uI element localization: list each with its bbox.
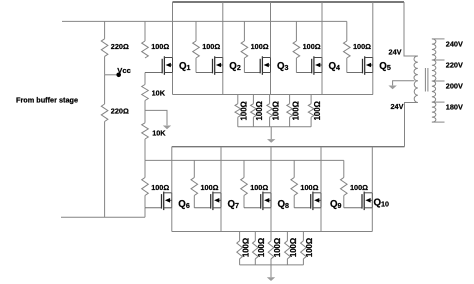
svg-text:220Ω: 220Ω (111, 107, 129, 116)
label 220V tap (446, 61, 463, 70)
label 100Ω source bank bottom #2 (257, 238, 266, 257)
wire top ground stem (270, 127, 272, 139)
svg-text:100Ω: 100Ω (255, 101, 264, 120)
resistor 100Ω source bank top #4 (287, 95, 293, 127)
wire gate bus drop Q10 (343, 160, 345, 177)
node Vcc stub wire (105, 74, 117, 76)
label 100Ω gate Q3 (251, 42, 269, 51)
transistor Q6 (145, 192, 172, 211)
svg-text:100Ω: 100Ω (350, 183, 368, 192)
svg-text:100Ω: 100Ω (291, 101, 300, 120)
label 100Ω gate Q2 (202, 42, 220, 51)
transistor Q9 (294, 192, 321, 211)
wire source Q8 (270, 208, 272, 232)
wire primary center tap (393, 81, 415, 86)
resistor 100Ω gate Q1 (142, 21, 149, 58)
svg-text:220Ω: 220Ω (111, 42, 129, 51)
label Q1 (179, 61, 191, 72)
svg-text:100Ω: 100Ω (289, 238, 298, 257)
label 100Ω gate Q6 (151, 183, 169, 192)
resistor 100Ω gate Q4 (293, 21, 300, 72)
transistor Q1 (145, 56, 173, 75)
wire top gate bus (62, 20, 347, 22)
label 100Ω gate Q5 (353, 42, 371, 51)
wire top source bus (173, 94, 374, 96)
svg-text:100Ω: 100Ω (303, 42, 321, 51)
label Vcc (117, 66, 131, 75)
transistor Q5 (347, 56, 373, 75)
label 100Ω source bank bottom #4 (289, 238, 298, 257)
svg-text:24V: 24V (389, 47, 402, 56)
resistor 100Ω gate Q8 (241, 178, 248, 208)
svg-text:100Ω: 100Ω (202, 42, 220, 51)
svg-text:24V: 24V (391, 102, 404, 111)
wire source Q5 (372, 73, 374, 95)
wire secondary tap 3 (432, 80, 445, 82)
label Q10 (374, 198, 389, 209)
label 100Ω gate Q4 (303, 42, 321, 51)
node From buffer stage label (16, 96, 78, 105)
wire top bank bottom bus (238, 126, 311, 128)
resistor 100Ω gate Q6 (142, 178, 149, 208)
transformer T1 core (425, 68, 428, 92)
wire source Q7 (220, 208, 222, 232)
transistor Q7 (194, 192, 221, 211)
svg-text:10K: 10K (152, 129, 166, 138)
label 180V tap (446, 103, 463, 112)
wire source Q2 (222, 73, 224, 95)
svg-text:From buffer stage: From buffer stage (16, 96, 78, 105)
label 24V bottom (391, 102, 404, 111)
arrow feedback down (163, 126, 171, 130)
transformer T1 primary upper winding (414, 56, 418, 81)
wire drain Q10 (371, 147, 373, 193)
wire secondary tap 5 (432, 121, 445, 123)
resistor 100Ω gate Q7 (191, 178, 198, 208)
resistor 10K lower (142, 123, 149, 161)
label 100Ω source bank top #3 (271, 101, 280, 120)
label Q8 (278, 199, 290, 210)
label 100Ω source bank top #4 (291, 101, 300, 120)
label 100Ω source bank bottom #3 (273, 238, 282, 257)
wire bottom bank bottom bus (240, 264, 304, 266)
label 100Ω gate Q10 (350, 183, 368, 192)
wire bottom drain rail (172, 146, 405, 148)
label 100Ω source bank top #2 (255, 101, 264, 120)
label 240V tap (446, 40, 463, 49)
wire primary bottom lead (405, 103, 418, 147)
svg-text:240V: 240V (446, 40, 463, 49)
label 100Ω gate Q9 (300, 183, 318, 192)
resistor 100Ω source bank bottom #1 (237, 232, 243, 265)
label 100Ω source bank bottom #1 (241, 238, 250, 257)
svg-text:100Ω: 100Ω (250, 183, 268, 192)
resistor 100Ω source bank top #5 (308, 95, 314, 127)
wire gate bus drop Q9 (293, 160, 295, 177)
label 100Ω source bank top #1 (240, 101, 249, 120)
wire bottom ground stem (270, 265, 272, 277)
transistor Q3 (244, 56, 270, 75)
wire input riser to Q6 gate node (144, 208, 146, 217)
resistor 100Ω source bank bottom #3 (268, 232, 274, 265)
svg-text:Vcc: Vcc (117, 66, 131, 75)
svg-text:180V: 180V (446, 103, 463, 112)
ground bottom bank (267, 277, 275, 281)
transistor Q8 (244, 192, 271, 211)
resistor 100Ω gate Q2 (193, 21, 200, 72)
transformer T1 primary lower winding (414, 81, 418, 103)
transformer T1 secondary winding (432, 39, 436, 122)
svg-text:100Ω: 100Ω (240, 101, 249, 120)
wire input from buffer (61, 216, 145, 218)
resistor 100Ω source bank top #1 (235, 95, 241, 127)
resistor 100Ω gate Q5 (344, 21, 351, 72)
label 24V top (389, 47, 402, 56)
wire source Q4 (321, 73, 323, 95)
svg-text:200V: 200V (446, 82, 463, 91)
wire 10K midpoint node (144, 101, 146, 123)
wire rail to primary top (404, 2, 418, 56)
wire drain Q7 (220, 147, 222, 193)
arrow center tap down (388, 86, 396, 90)
wire secondary tap 1 (432, 38, 445, 40)
label Q7 (228, 199, 240, 210)
resistor 100Ω source bank bottom #2 (253, 232, 259, 265)
svg-text:100Ω: 100Ω (300, 183, 318, 192)
label 200V tap (446, 82, 463, 91)
svg-text:100Ω: 100Ω (353, 42, 371, 51)
resistor 100Ω gate Q10 (341, 178, 348, 208)
label 220Ω lower (111, 107, 129, 116)
wire drain Q5 (372, 2, 374, 58)
svg-text:100Ω: 100Ω (151, 42, 169, 51)
svg-text:220V: 220V (446, 61, 463, 70)
svg-text:10K: 10K (152, 89, 166, 98)
wire feedback branch (145, 110, 167, 125)
wire Q1 gate node to 10K (144, 73, 146, 85)
svg-text:100Ω: 100Ω (201, 183, 219, 192)
resistor 100Ω source bank top #3 (267, 95, 273, 127)
label Q4 (329, 61, 341, 72)
wire drain Q8 (270, 147, 272, 193)
wire drain Q9 (320, 147, 322, 193)
svg-text:100Ω: 100Ω (271, 101, 280, 120)
label 100Ω source bank top #5 (313, 101, 322, 120)
svg-text:100Ω: 100Ω (241, 238, 250, 257)
label 10K lower (152, 129, 166, 138)
svg-text:100Ω: 100Ω (313, 101, 322, 120)
label 100Ω gate Q7 (201, 183, 219, 192)
wire source Q6 (171, 208, 173, 232)
resistor 100Ω source bank bottom #4 (285, 232, 291, 265)
resistor 100Ω gate Q9 (291, 178, 298, 208)
label Q6 (178, 199, 190, 210)
svg-text:100Ω: 100Ω (251, 42, 269, 51)
resistor 220Ω upper (101, 21, 108, 74)
transistor Q2 (196, 56, 223, 75)
wire source Q10 (371, 208, 373, 232)
wire gate bus drop Q7 (193, 160, 195, 177)
transistor Q10 (344, 192, 373, 211)
resistor 100Ω gate Q3 (241, 21, 248, 72)
label 100Ω source bank bottom #5 (305, 238, 314, 257)
svg-text:100Ω: 100Ω (273, 238, 282, 257)
transistor Q4 (296, 56, 322, 75)
resistor 10K upper (142, 85, 149, 111)
ground top bank (267, 139, 275, 143)
resistor 220Ω lower (101, 75, 108, 217)
label 100Ω gate Q1 (151, 42, 169, 51)
wire source Q1 (172, 73, 174, 95)
wire bottom gate bus (145, 159, 344, 161)
label Q5 (379, 61, 391, 72)
label 100Ω gate Q8 (250, 183, 268, 192)
wire secondary tap 4 (432, 101, 445, 103)
wire bottom source bus (172, 231, 372, 233)
node Vcc junction dot (116, 73, 121, 78)
wire drain Q4 (321, 2, 323, 58)
wire gate bus drop Q8 (243, 160, 245, 177)
wire drain Q1 (172, 2, 174, 58)
label 220Ω upper (111, 42, 129, 51)
wire source Q3 (270, 73, 272, 95)
wire source Q9 (320, 208, 322, 232)
svg-text:100Ω: 100Ω (151, 183, 169, 192)
resistor 100Ω source bank top #2 (251, 95, 257, 127)
label Q3 (277, 61, 289, 72)
label 10K upper (152, 89, 166, 98)
wire secondary tap 2 (432, 59, 445, 61)
wire drain Q3 (270, 2, 272, 58)
wire drain Q6 (171, 147, 173, 193)
label Q9 (330, 199, 342, 210)
resistor 100Ω source bank bottom #5 (301, 232, 307, 265)
label Q2 (229, 61, 241, 72)
wire drain Q2 (222, 2, 224, 58)
wire chain to Q6 resistor (144, 160, 146, 177)
svg-text:100Ω: 100Ω (305, 238, 314, 257)
svg-text:100Ω: 100Ω (257, 238, 266, 257)
wire top drain rail (173, 1, 405, 3)
